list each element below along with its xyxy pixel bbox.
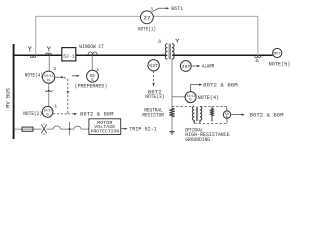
trip wire bend down [64,77,68,114]
svg-text:52-1: 52-1 [63,54,74,60]
main bus wire (left segment to 52-1) [14,54,62,56]
ground symbol [169,131,175,134]
main bus wire (52-1 to transformer) [76,54,167,56]
ground relay 51G [185,92,196,103]
CT2 wye label Y [47,47,51,52]
grounding transformer left winding [192,106,194,123]
svg-text:3: 3 [150,7,153,13]
svg-text:NOTE(3): NOTE(3) [145,94,164,100]
wire 50/51 down to contactor relay [48,83,50,106]
svg-text:1: 1 [54,103,57,109]
transformer T1 core [168,44,170,60]
transformer T1 secondary winding (wye) [172,44,174,59]
transformer neutral wire [171,59,173,109]
svg-text:NOTE(5): NOTE(5) [269,62,291,68]
svg-text:MOT: MOT [274,53,282,57]
fuse box [22,127,33,131]
svg-text:PROTECTION: PROTECTION [91,129,120,135]
PT stub vertical with junction [69,122,71,135]
dashed bottom return rail [194,122,227,124]
svg-text:TRIP 52-1: TRIP 52-1 [129,127,157,133]
motor circle [273,48,282,57]
transformer pressure relay 63T [148,60,159,71]
svg-text:GROUNDING: GROUNDING [185,137,210,143]
breaker box 52-1 [62,48,76,61]
trip leader from 27 [152,8,166,11]
svg-text:Δ: Δ [158,39,161,45]
svg-text:49T: 49T [182,65,191,70]
svg-text:86T2 & 86M: 86T2 & 86M [203,81,238,88]
PT tap wire left vertical [35,16,37,55]
svg-text:NOTE(2): NOTE(2) [23,111,42,117]
alarm arrow [191,65,197,67]
svg-text:NOTE(1): NOTE(1) [138,27,156,33]
trip wire to 86T2 & 86M [68,113,74,115]
MV bus vertical bar [13,44,15,139]
transformer T1 primary winding (delta) [165,44,167,59]
grounding transformer right winding [200,106,202,123]
downward arrowhead on trip wire [67,91,69,94]
dashed trip wire from 63T [153,71,155,83]
CT1 polarity hooks (below bus) [30,56,35,58]
svg-text:(PREFERRED): (PREFERRED) [75,84,108,90]
PREFERRED pointer arrow to 50G [72,75,77,77]
dashed trip wire from NOTE(2) relay [53,113,68,115]
neutral wire below resistor [171,116,173,131]
neutral resistor zigzag [169,108,174,116]
right PT hooks below bus [255,56,261,58]
svg-text:N: N [47,79,50,83]
wire from 59 bottom [226,118,228,123]
hop arc 1 [53,126,60,129]
transformer thermal relay 49T [180,61,191,72]
arrow 59 to 86T2 & 86M [231,114,242,116]
grounding transformer core [195,107,197,121]
svg-text:63T: 63T [149,64,158,69]
PT tap wire right vertical [257,16,259,57]
svg-text:RESISTOR: RESISTOR [142,112,164,118]
trip arrow from MVP box [121,128,125,130]
CT2 polarity hooks (above bus) [46,53,52,55]
svg-text:27: 27 [143,15,151,22]
dashed link transformer to resistor [200,106,212,108]
svg-text:86T2 & 86M: 86T2 & 86M [250,111,284,118]
hop arc 2 [74,126,81,129]
svg-text:Δ: Δ [256,58,259,64]
wire down to 59 circle [226,107,228,111]
window CT arcs (above bus) [88,52,97,55]
PT loop top wire (left of 27) [36,15,141,17]
motor voltage protection box [89,119,121,135]
dashed tap to optional ground [172,106,193,108]
contactor X symbol [41,123,46,135]
svg-text:1: 1 [96,67,99,73]
svg-text:86T1: 86T1 [171,6,183,12]
svg-text:86T2 & 86M: 86T2 & 86M [80,111,114,118]
svg-text:MV BUS: MV BUS [5,88,11,108]
svg-text:NOTE(4): NOTE(4) [198,95,220,101]
window CT drop wire to 50G [91,55,93,70]
feeder 2 wire to MVP box [81,128,89,130]
svg-text:ALARM: ALARM [202,64,214,70]
PT loop top wire (right of 27) [153,15,258,17]
dashed link resistor to 59 [212,106,227,108]
relay 50/51G (contactor feeder) circle [42,106,53,117]
svg-text:3: 3 [53,66,56,72]
CT2 drop wire to 50/51 [48,55,50,71]
CT1 wye label Y [28,47,32,52]
neutral tap to 51G [172,96,185,98]
relay 50G circle [87,70,99,82]
feeder 2 wire segment [61,128,75,130]
main bus wire (transformer to motor) [173,54,273,56]
trip wire from 51G up [191,85,200,92]
undervoltage relay 27 [141,11,154,24]
optional resistor [211,107,214,122]
junction dot [48,90,50,92]
feeder 2 wire segment [47,128,54,130]
svg-text:NOTE(4): NOTE(4) [25,73,43,79]
relay 50/51 circle [43,71,55,83]
svg-text:WINDOW CT: WINDOW CT [79,44,104,50]
ground overvoltage relay 59 [223,111,230,118]
wye symbol [176,39,179,43]
trip arrow from 50/51 [55,76,61,78]
CT hooks on relay wire [45,90,52,91]
feeder 2 wire from bus [14,128,41,130]
